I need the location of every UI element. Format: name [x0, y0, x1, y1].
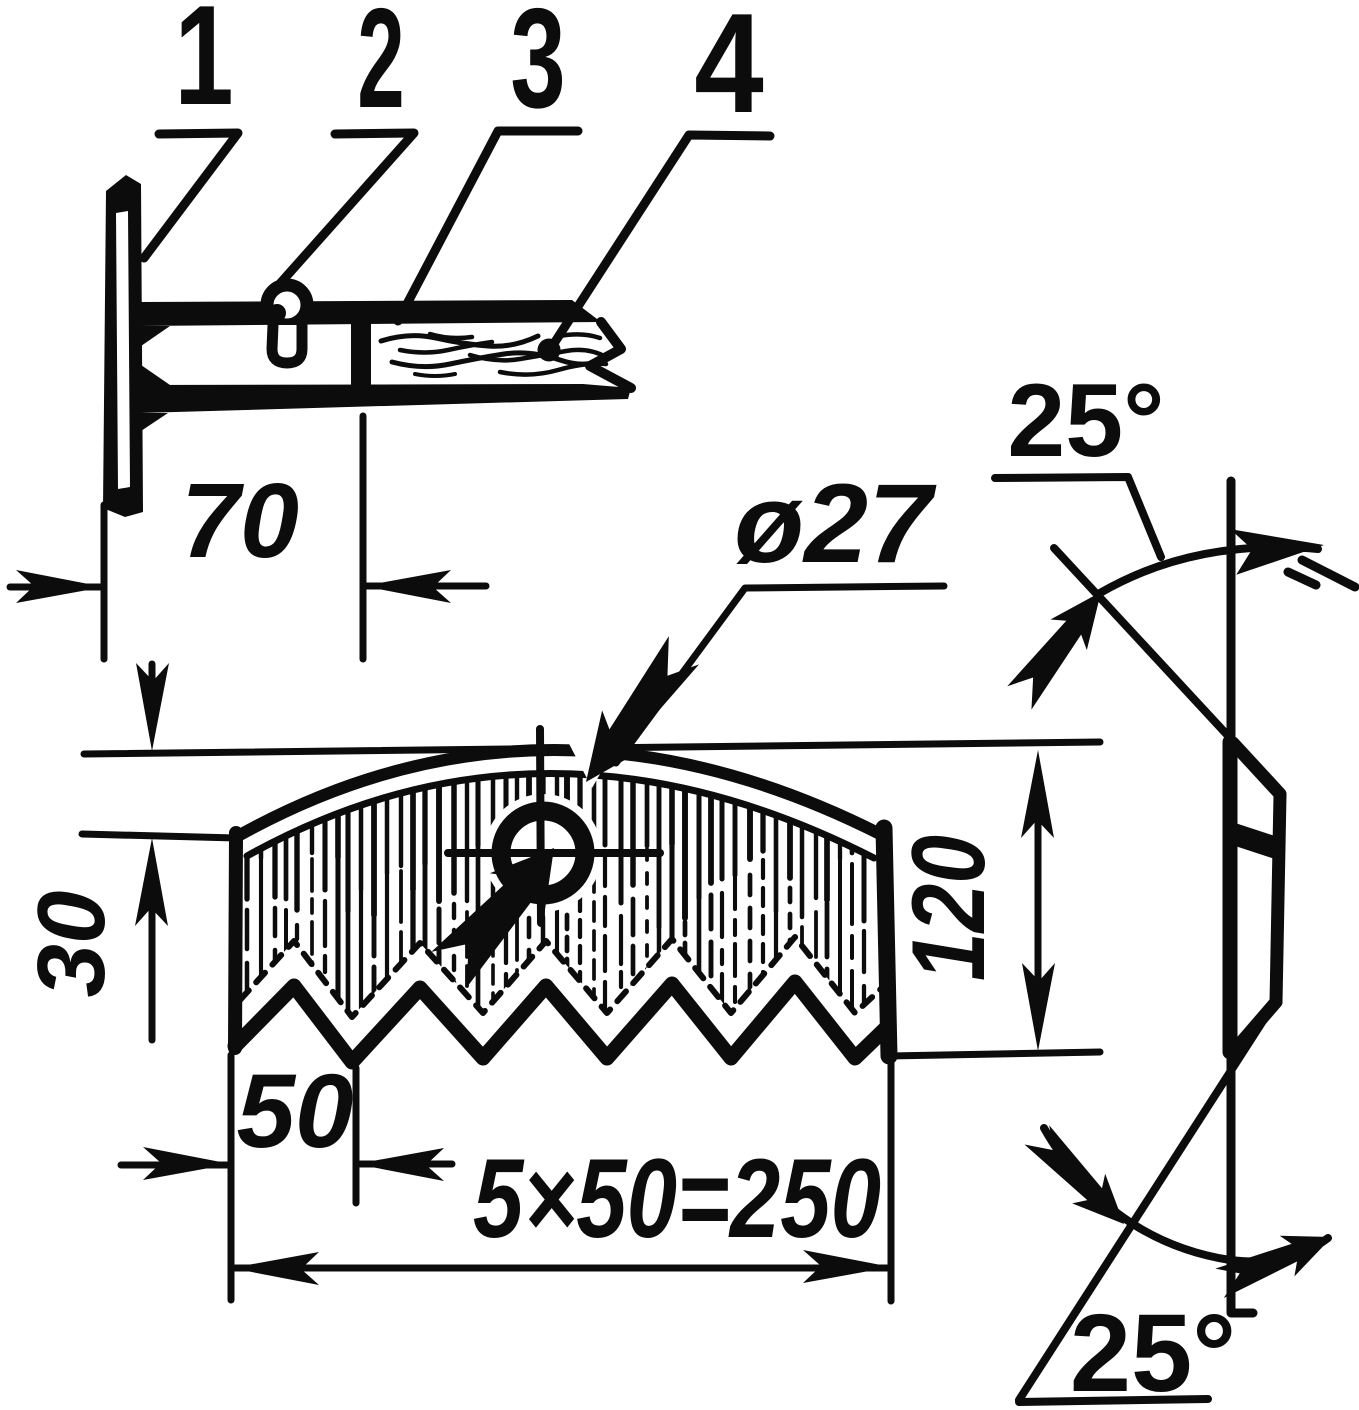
leader line 1	[144, 133, 238, 258]
blade plate (item 1), edge-on	[103, 175, 143, 517]
bracket right channel bar	[351, 302, 371, 399]
svg-text:ø27: ø27	[734, 461, 937, 586]
bottom 25 leader base	[1019, 1399, 1208, 1402]
bracket fillets at plate	[141, 326, 170, 431]
handle (item 4) broken end jag	[590, 322, 631, 388]
bracket top bar (item 3)	[140, 300, 601, 326]
rivet dot on handle	[538, 339, 561, 362]
profile top-right slant	[1233, 743, 1280, 794]
top edge diagonal	[1054, 548, 1281, 793]
profile left wall	[1223, 742, 1238, 1052]
svg-text:120: 120	[891, 835, 1007, 981]
blade left edge	[235, 833, 236, 1048]
leader ø27	[616, 586, 944, 763]
top angle arc 25	[1100, 547, 1318, 593]
wood grain of handle	[381, 336, 538, 347]
dim 30 lower line	[82, 834, 236, 838]
dim 30 lower arrow (up)	[149, 890, 156, 1040]
bolt nut / pin below	[272, 325, 302, 363]
dim 50: right arrow	[360, 1161, 452, 1168]
blade right edge	[884, 828, 889, 1056]
bottom angle arc 25	[1044, 1128, 1328, 1261]
hole ø27: circle	[501, 811, 585, 895]
leader line 4	[553, 135, 770, 345]
blade inner top arc	[247, 773, 874, 858]
profile bottom-right slant	[1232, 1002, 1276, 1053]
hole band in profile	[1223, 819, 1281, 861]
leader line 2	[268, 133, 414, 297]
dim 120: vertical line	[1035, 790, 1042, 1010]
svg-text:5×50=250: 5×50=250	[473, 1136, 881, 1261]
dim 50: extension lines	[228, 1055, 235, 1300]
svg-text:4: 4	[694, 0, 764, 143]
hole ø27: white disc	[484, 794, 602, 912]
dim 5x50=250: extension right	[888, 1060, 895, 1301]
top 25 leader	[995, 477, 1161, 557]
dimension 70: left arrow	[10, 584, 100, 591]
dimension 70: right arrow	[367, 583, 486, 590]
svg-text:50: 50	[237, 1053, 354, 1170]
top datum line	[84, 742, 1100, 754]
profile right wall	[1276, 795, 1280, 1002]
svg-text:30: 30	[18, 891, 125, 998]
svg-text:25°: 25°	[1007, 363, 1164, 479]
dimension 70: extension lines	[101, 505, 108, 659]
direction arrow at hole	[424, 827, 583, 1000]
svg-text:2: 2	[357, 0, 404, 137]
bracket bottom bar	[140, 384, 631, 413]
svg-text:1: 1	[174, 0, 233, 135]
hole crosshair vertical	[540, 729, 541, 923]
dim 50: left arrow	[121, 1162, 227, 1169]
bottom edge diagonal	[1019, 1010, 1270, 1400]
svg-text:3: 3	[510, 0, 565, 137]
leader line 3	[398, 131, 578, 321]
vertical axis line	[1231, 481, 1253, 1313]
dim 120: bottom line	[888, 1052, 1100, 1056]
svg-text:70: 70	[181, 462, 299, 580]
blade outer top arc	[238, 750, 880, 836]
hole crosshair horizontal	[448, 849, 660, 857]
bolt head (item 2)	[267, 285, 307, 325]
bevel line (dashed zigzag)	[240, 937, 884, 1017]
svg-text:25°: 25°	[1070, 1292, 1236, 1410]
HATCH	[247, 683, 864, 1040]
teeth cutting edge (zigzag)	[235, 982, 886, 1062]
dim 5x50=250: line with arrows	[235, 1265, 887, 1272]
dim 30 upper arrow (down)	[149, 664, 156, 700]
